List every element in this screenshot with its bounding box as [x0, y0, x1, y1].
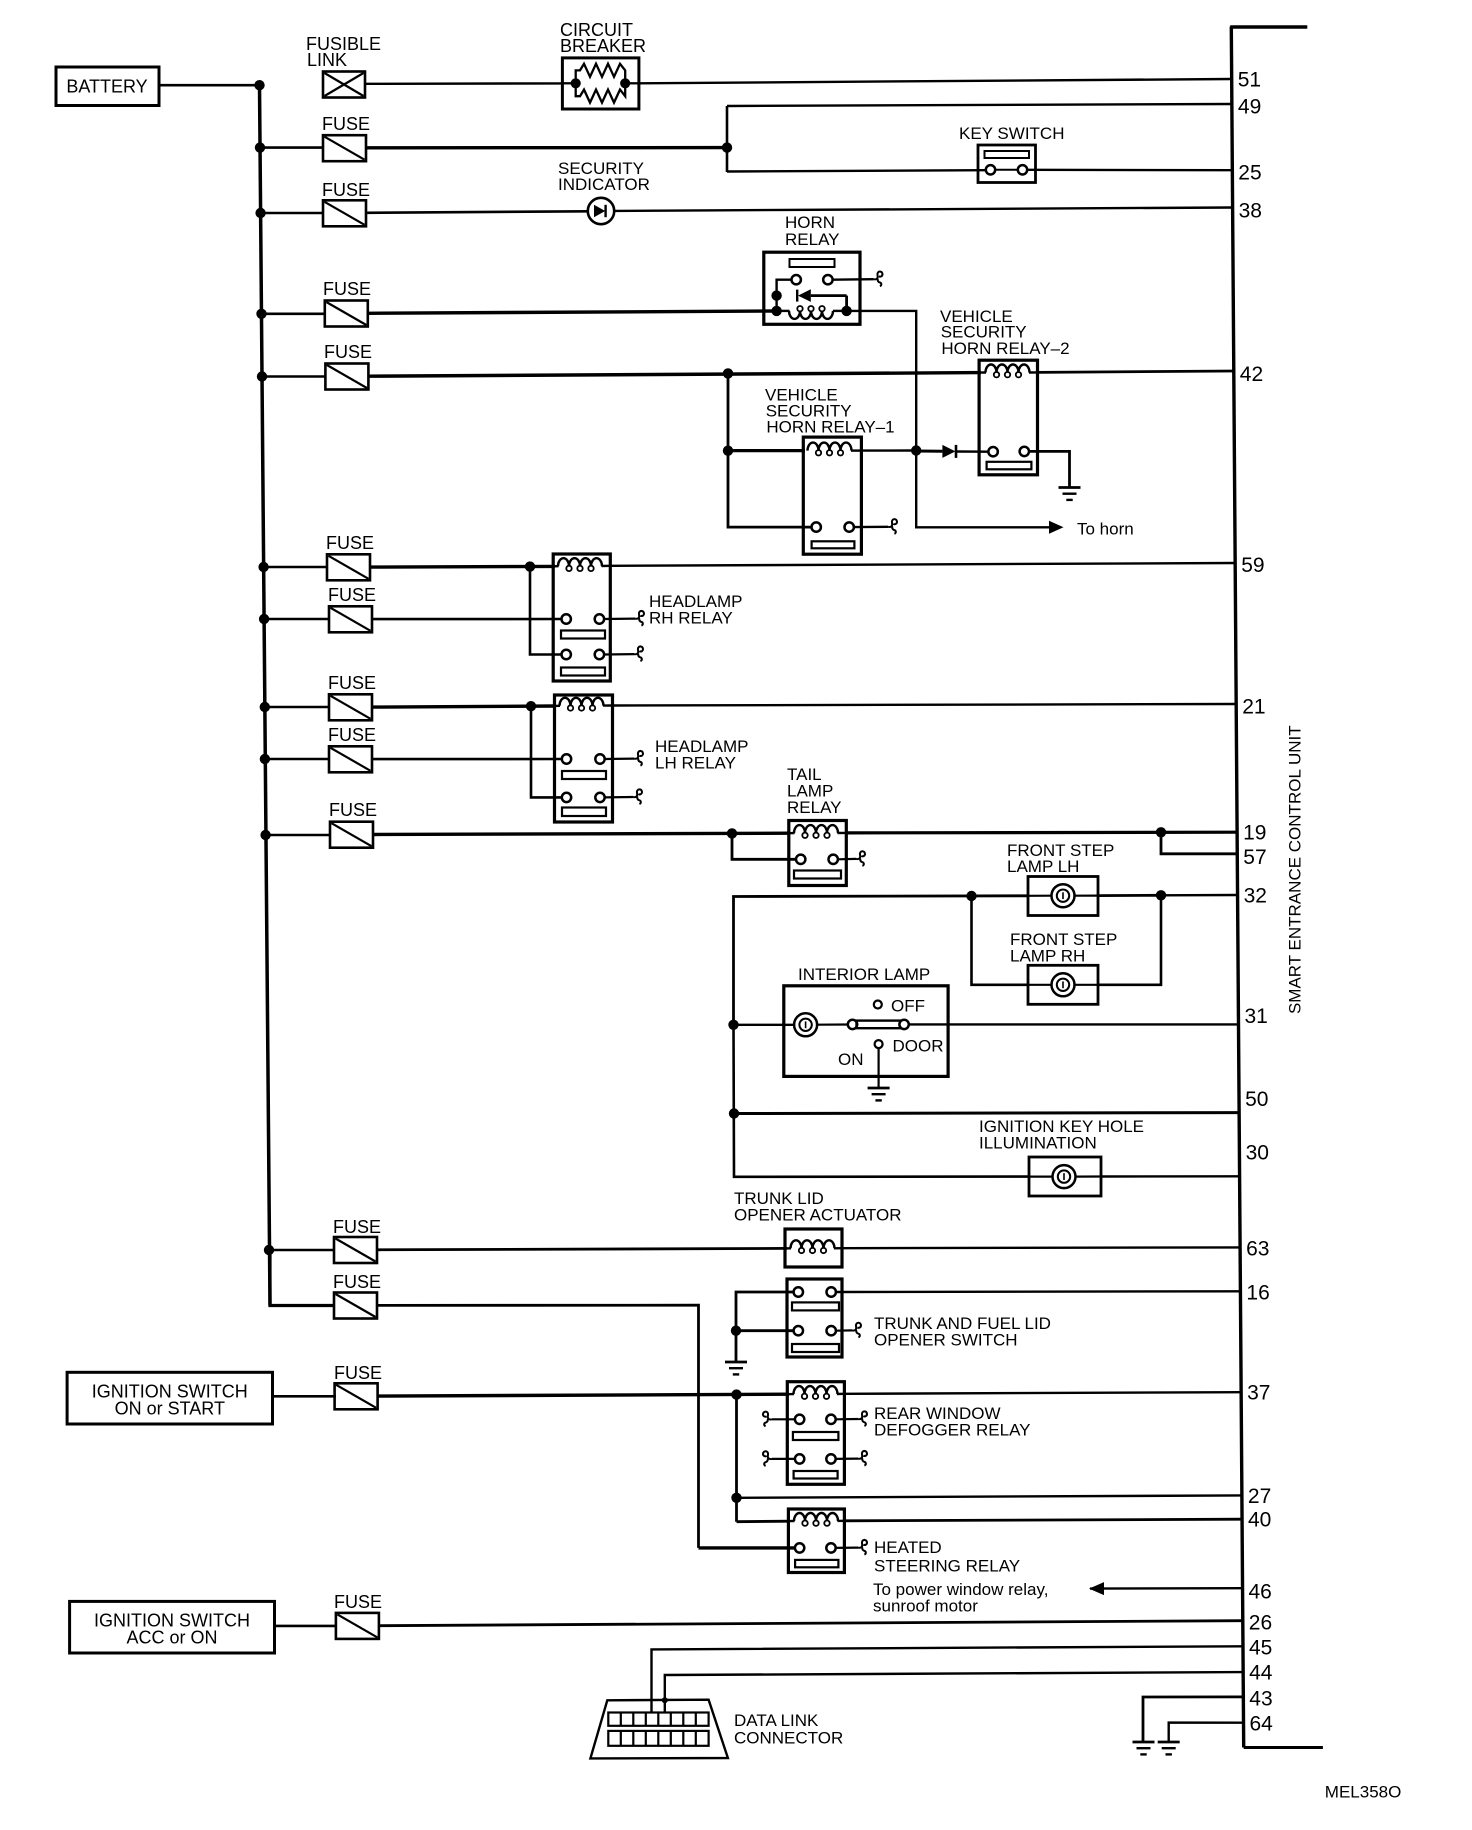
junction 50 row: [729, 1108, 739, 1118]
wire 21 coil to pin 21: [613, 704, 1237, 706]
smart entrance control unit left edge: [1231, 27, 1243, 1748]
fuse row10: [330, 822, 373, 848]
svg-text:LINK: LINK: [307, 50, 347, 70]
trunk switch contact1 right: [827, 1287, 836, 1296]
junction bus fuse row3: [255, 208, 265, 218]
wire rh relay contact2 stub: [604, 653, 634, 656]
wire heated steering stub: [836, 1546, 858, 1549]
svg-text:45: 45: [1249, 1636, 1272, 1659]
wire ign acc to fuse14: [275, 1625, 338, 1628]
wire 44 to data link connector: [665, 1672, 1243, 1713]
svg-text:27: 27: [1248, 1485, 1271, 1508]
wire lh lamp internal right: [1075, 894, 1099, 896]
wire fuse11 to actuator: [377, 1248, 787, 1249]
headlamp lh relay box: [555, 695, 613, 822]
data link connector shell: [590, 1700, 728, 1759]
data link connector row2 cells: [608, 1731, 708, 1746]
horn relay left contact wire: [777, 280, 792, 311]
smart entrance control unit top edge: [1230, 25, 1307, 28]
relay-2 coil: [979, 371, 986, 374]
svg-text:32: 32: [1244, 885, 1267, 908]
wire riser to relay-1 coil: [727, 373, 730, 450]
svg-text:FUSE: FUSE: [333, 1217, 381, 1237]
fusible link: [323, 72, 365, 98]
diode D2: [942, 445, 956, 458]
svg-text:31: 31: [1245, 1005, 1268, 1028]
junction lh coil feed: [526, 701, 536, 711]
junction 44 wire at connector edge: [662, 1697, 668, 1703]
junction relay-1 coil feed: [723, 446, 733, 456]
wire 27 to pin 27: [737, 1495, 1242, 1497]
svg-text:25: 25: [1238, 162, 1261, 185]
interior switch DOOR contact: [875, 1040, 883, 1048]
svg-text:HEATED: HEATED: [874, 1538, 942, 1557]
wire heated steering contact feed: [699, 1546, 796, 1549]
wire fuse12 to heated steering riser: [377, 1305, 699, 1548]
rh relay coil: [553, 565, 558, 567]
connector stub heated steering: [858, 1540, 867, 1555]
junction interior lamp feed: [728, 1020, 738, 1030]
wire fuse8 to lh relay coil: [372, 706, 556, 707]
heated steering contact left: [795, 1543, 804, 1552]
wire 38 indicator to pin 38: [614, 208, 1232, 211]
fuse row14: [336, 1613, 379, 1639]
circuit breaker: [562, 58, 639, 109]
wire rh lamp internal left: [1028, 984, 1052, 986]
wire defogger contact1 right stub: [836, 1418, 858, 1421]
connector stub defogger 1R: [858, 1411, 867, 1426]
wire relay-2 to ground: [1029, 451, 1070, 487]
wire to diode D2: [916, 450, 942, 453]
svg-text:HORN RELAY–2: HORN RELAY–2: [941, 339, 1069, 358]
wire 49 to pin 49: [727, 104, 1232, 106]
horn relay box: [764, 252, 860, 324]
svg-text:46: 46: [1249, 1580, 1272, 1603]
wire 26 to pin 26: [379, 1621, 1243, 1626]
wire diode to relay-2 contact: [956, 450, 989, 453]
wire relay-1 coil to diode: [861, 449, 916, 452]
wire horn relay output: [847, 311, 917, 451]
wire 30 to pin 30: [1101, 1175, 1240, 1178]
svg-text:LAMP RH: LAMP RH: [1010, 947, 1085, 966]
security indicator diode lamp: [588, 198, 614, 224]
wire keyhole feed: [734, 1025, 1030, 1177]
wire 45 to data link connector: [652, 1646, 1244, 1713]
wire relay-1 contact stub: [854, 526, 888, 529]
wire horn relay switched contact: [833, 278, 874, 281]
wire rh relay contact2 feed: [530, 567, 562, 655]
ground 43: [1133, 1742, 1155, 1754]
svg-text:ACC or ON: ACC or ON: [126, 1628, 217, 1648]
wire fuse13 to defogger relay: [378, 1394, 789, 1396]
ignition switch acc box: [70, 1601, 275, 1653]
svg-text:16: 16: [1246, 1282, 1269, 1305]
svg-text:DOOR: DOOR: [893, 1037, 944, 1056]
junction tail relay feed: [727, 828, 737, 838]
interior switch OFF contact: [874, 1001, 882, 1009]
junction bus fuse row4: [256, 309, 266, 319]
junction trunk switch ground riser: [731, 1326, 741, 1336]
wire fuse4 to horn relay: [368, 311, 777, 313]
wire lh relay contact1 stub: [605, 757, 634, 760]
wire bus to fuse2: [260, 146, 323, 149]
riser wire to 49 and key switch: [726, 106, 729, 172]
svg-text:40: 40: [1248, 1509, 1271, 1532]
lh relay bar2: [562, 808, 606, 817]
lh relay coil: [555, 705, 561, 708]
wire step lamp rh feed: [972, 896, 1029, 985]
fuse row7: [329, 606, 372, 632]
horn relay contact left: [792, 275, 801, 284]
junction bus fuse row7: [259, 614, 269, 624]
wire trunk switch row2 left: [736, 1329, 794, 1332]
ground trunk switch: [725, 1362, 747, 1374]
interior switch pivot right: [899, 1020, 908, 1029]
arrow to horn: [1049, 521, 1064, 534]
connector stub rh2: [634, 646, 643, 661]
defogger contact1 right: [826, 1415, 835, 1424]
svg-text:HORN RELAY–1: HORN RELAY–1: [766, 417, 894, 436]
wire to horn: [916, 451, 1050, 528]
wire tail relay stub: [838, 858, 856, 861]
fuse row11: [334, 1237, 377, 1263]
relay-1 contact left: [812, 522, 821, 531]
wire relay-1 lower contact feed: [728, 451, 812, 527]
junction coil right: [841, 306, 851, 316]
svg-text:42: 42: [1240, 363, 1263, 386]
wire key switch contacts: [995, 169, 1018, 171]
wire fusible link to circuit breaker: [365, 82, 562, 85]
trunk lid opener actuator box: [785, 1229, 842, 1267]
front step lamp rh bulb: [1052, 973, 1075, 996]
svg-text:63: 63: [1246, 1238, 1269, 1261]
junction rh coil feed: [525, 561, 535, 571]
wire 43 to ground: [1143, 1697, 1243, 1742]
connector stub defogger 2R: [858, 1451, 867, 1466]
trunk switch bar1: [792, 1302, 839, 1310]
ignition switch on/start box: [67, 1372, 272, 1424]
svg-text:57: 57: [1243, 846, 1266, 869]
wire 32 to pin 32: [1098, 894, 1161, 897]
tail relay contact right: [829, 855, 838, 864]
rh relay contact2 right: [595, 650, 604, 659]
svg-text:FUSE: FUSE: [328, 673, 376, 693]
actuator coil: [785, 1247, 791, 1249]
lh relay contact2 right: [595, 793, 604, 802]
svg-text:MEL358O: MEL358O: [1325, 1783, 1402, 1802]
key switch bar: [985, 151, 1030, 158]
svg-text:DATA LINK: DATA LINK: [734, 1711, 819, 1730]
wire fuse9 to lh relay contact: [372, 758, 562, 761]
svg-text:OPENER SWITCH: OPENER SWITCH: [874, 1331, 1018, 1350]
rh relay bar2: [561, 668, 605, 676]
svg-text:FUSE: FUSE: [333, 1272, 381, 1292]
svg-text:INTERIOR LAMP: INTERIOR LAMP: [798, 965, 930, 984]
defogger bar2: [794, 1471, 838, 1479]
svg-text:DEFOGGER RELAY: DEFOGGER RELAY: [874, 1421, 1031, 1440]
wire 31 to pin 31: [909, 1023, 1239, 1025]
front step lamp lh bulb: [1052, 884, 1075, 907]
wire 50 to pin 50: [734, 1111, 1239, 1115]
defogger contact2 left: [795, 1454, 804, 1463]
heated steering contact right: [826, 1543, 835, 1552]
wire 19 coil to pin 19: [846, 831, 1237, 835]
wire lh relay contact2 stub: [605, 796, 633, 799]
wire fuse7 to rh relay contact: [372, 618, 562, 621]
defogger contact2 right: [826, 1454, 835, 1463]
wire bus to fuse5: [262, 375, 325, 378]
svg-text:FUSE: FUSE: [334, 1592, 382, 1612]
wire 37 to pin 37: [844, 1392, 1241, 1394]
trunk switch bar2: [792, 1344, 839, 1352]
front step lamp lh box: [1028, 877, 1098, 916]
svg-text:RELAY: RELAY: [787, 798, 842, 817]
svg-text:BREAKER: BREAKER: [560, 36, 646, 56]
trunk switch contact2 right: [827, 1326, 836, 1335]
interior lamp bulb: [794, 1013, 817, 1036]
connector stub horn relay: [874, 272, 883, 287]
wire defogger contact2 left stub: [772, 1458, 795, 1460]
rh relay contact1 right: [595, 614, 604, 623]
relay-1 coil: [851, 449, 861, 451]
svg-text:KEY SWITCH: KEY SWITCH: [959, 124, 1064, 143]
wire trunk switch stub: [836, 1329, 852, 1331]
ground relay-2: [1059, 488, 1081, 500]
wire 51 circuit breaker to pin 51: [639, 79, 1232, 83]
wire fuse3 to security indicator: [366, 211, 588, 213]
wire keyhole internal left: [1029, 1175, 1053, 1177]
junction step lamp lh left: [966, 891, 976, 901]
wire lh lamp internal left: [1028, 895, 1052, 897]
vehicle security horn relay-1 box: [803, 437, 861, 554]
wire 40 to pin 40: [844, 1519, 1242, 1521]
defogger relay coil: [787, 1393, 794, 1395]
svg-text:LAMP LH: LAMP LH: [1007, 857, 1079, 876]
junction diode/left riser: [771, 290, 781, 300]
relay-1 contact right: [845, 522, 854, 531]
rear window defogger relay box: [787, 1382, 844, 1485]
connector stub relay-1: [888, 519, 897, 534]
fuse row9: [329, 746, 372, 772]
junction bus fuse row2: [255, 142, 265, 152]
wire tail relay contact feed: [732, 833, 797, 859]
svg-text:SMART ENTRANCE CONTROL UNIT: SMART ENTRANCE CONTROL UNIT: [1286, 725, 1305, 1014]
horn relay coil: [777, 310, 790, 312]
headlamp rh relay box: [553, 554, 610, 681]
svg-text:FUSE: FUSE: [326, 533, 374, 553]
tail relay bar: [794, 871, 841, 879]
connector stub defogger 2L: [763, 1451, 772, 1466]
svg-text:INDICATOR: INDICATOR: [558, 175, 650, 194]
junction coil left: [771, 306, 781, 316]
data link connector row1 cells: [608, 1713, 708, 1726]
interior switch pivot left: [848, 1020, 857, 1029]
junction bus fuse row9: [260, 754, 270, 764]
svg-text:ON or START: ON or START: [115, 1399, 225, 1419]
wire bus to fuse6: [264, 566, 327, 569]
svg-text:RH RELAY: RH RELAY: [649, 609, 733, 628]
relay-2 contact left: [988, 447, 997, 456]
ignition key hole illumination box: [1029, 1157, 1101, 1196]
junction fuse2/riser: [722, 142, 732, 152]
svg-text:ON: ON: [838, 1050, 864, 1069]
wire riser to heated steering coil: [737, 1520, 791, 1523]
wire 64 to ground: [1169, 1723, 1244, 1742]
svg-text:26: 26: [1249, 1612, 1272, 1635]
wire bus to fuse7: [264, 618, 329, 621]
svg-text:FUSE: FUSE: [328, 585, 376, 605]
svg-text:STEERING RELAY: STEERING RELAY: [874, 1557, 1020, 1576]
front step lamp rh box: [1028, 965, 1098, 1004]
horn relay bar: [790, 259, 835, 267]
junction 19/57: [1156, 827, 1166, 837]
horn relay contact right: [823, 275, 832, 284]
svg-text:To horn: To horn: [1077, 520, 1134, 539]
interior lamp box: [784, 986, 948, 1077]
svg-text:OFF: OFF: [891, 997, 925, 1016]
svg-text:44: 44: [1249, 1662, 1273, 1685]
wire fuse10 to tail lamp relay: [373, 833, 790, 834]
junction bus fuse row5: [257, 371, 267, 381]
vehicle security horn relay-2 box: [979, 360, 1037, 475]
junction step lamp rh right: [1156, 890, 1166, 900]
svg-text:FUSE: FUSE: [328, 725, 376, 745]
svg-text:30: 30: [1246, 1142, 1269, 1165]
wire 31 feed into box: [734, 1024, 795, 1026]
relay-2 bar: [987, 462, 1032, 470]
fuse row6: [327, 554, 370, 580]
svg-text:FUSE: FUSE: [322, 180, 370, 200]
svg-text:ILLUMINATION: ILLUMINATION: [979, 1134, 1097, 1153]
wire rh relay contact1 stub: [604, 617, 635, 620]
svg-text:64: 64: [1250, 1713, 1274, 1736]
wire 42 fuse5 to relay-2 coil: [368, 373, 981, 377]
junction 27: [731, 1493, 741, 1503]
key switch box: [978, 145, 1036, 183]
wire bulb to switch: [817, 1023, 848, 1025]
wire door contact to ground: [877, 1048, 879, 1087]
svg-text:FUSE: FUSE: [329, 800, 377, 820]
svg-text:RELAY: RELAY: [785, 230, 840, 249]
relay-1 bar: [812, 541, 855, 548]
battery box: [56, 67, 159, 106]
wire defogger contact2 right stub: [836, 1457, 858, 1460]
wire step lamp rh return: [1098, 895, 1161, 985]
wire 57 drop: [1161, 832, 1237, 854]
keyhole bulb: [1053, 1165, 1076, 1188]
ground interior lamp: [868, 1088, 890, 1100]
fuse row3: [323, 200, 366, 226]
tail lamp relay box: [789, 821, 847, 886]
svg-text:FUSE: FUSE: [322, 114, 370, 134]
arrow to power window: [1089, 1582, 1104, 1595]
junction bus fuse row8: [260, 702, 270, 712]
tail lamp relay coil: [789, 832, 795, 835]
wire bus to fuse9: [265, 758, 329, 761]
wire 25 key switch to pin 25: [1027, 169, 1232, 172]
wire bus to fuse11: [269, 1249, 334, 1252]
interior switch blade: [857, 1021, 901, 1029]
wire rh lamp internal right: [1075, 984, 1099, 986]
svg-text:sunroof motor: sunroof motor: [873, 1597, 978, 1616]
junction defogger feed: [731, 1389, 741, 1399]
tail relay contact left: [796, 855, 805, 864]
lh relay bar1: [562, 771, 606, 779]
wire keyhole internal right: [1076, 1175, 1102, 1177]
svg-text:CONNECTOR: CONNECTOR: [734, 1729, 843, 1748]
rh relay bar1: [561, 631, 605, 639]
horn relay diode: [797, 289, 846, 311]
wire 32 row: [734, 896, 1029, 1025]
smart entrance control unit bottom edge: [1244, 1746, 1323, 1749]
wire fuse6 to rh relay coil: [370, 565, 555, 569]
wire 42 relay-2 to pin 42: [1038, 371, 1234, 372]
fuse row5: [325, 364, 368, 390]
wire bus to fuse3: [261, 212, 323, 215]
wire defogger riser: [735, 1395, 738, 1522]
wire fuse2 to riser: [366, 146, 728, 150]
connector stub rh1: [635, 611, 644, 626]
svg-text:38: 38: [1239, 200, 1262, 223]
rh relay contact2 left: [562, 650, 571, 659]
svg-text:BATTERY: BATTERY: [66, 77, 147, 97]
heated steering coil: [788, 1520, 794, 1522]
wire 16 to pin 16: [836, 1290, 1241, 1293]
fuse row4: [325, 301, 368, 327]
svg-text:19: 19: [1243, 822, 1266, 845]
svg-text:37: 37: [1247, 1382, 1270, 1405]
wire 46 power window: [1090, 1587, 1243, 1590]
svg-text:FUSE: FUSE: [334, 1363, 382, 1383]
junction bus fuse row6: [258, 562, 268, 572]
svg-text:21: 21: [1242, 696, 1265, 719]
fuse row2: [323, 135, 366, 161]
svg-text:50: 50: [1245, 1088, 1268, 1111]
trunk switch contact1 left: [794, 1287, 803, 1296]
connector stub lh1: [634, 751, 643, 766]
svg-text:51: 51: [1238, 69, 1261, 92]
wire lh relay contact2 feed: [531, 706, 562, 797]
svg-text:FUSE: FUSE: [323, 279, 371, 299]
wire battery to bus: [159, 84, 261, 87]
defogger contact1 left: [795, 1415, 804, 1424]
fuse row12: [334, 1293, 377, 1319]
svg-text:LH RELAY: LH RELAY: [655, 754, 736, 773]
svg-text:FUSE: FUSE: [324, 342, 372, 362]
key switch contact left: [986, 165, 995, 174]
trunk and fuel lid opener switch box: [787, 1279, 842, 1357]
key switch contact right: [1018, 165, 1027, 174]
svg-text:49: 49: [1238, 96, 1261, 119]
wire bus to fuse10: [266, 834, 330, 837]
wire 59 coil to pin 59: [610, 563, 1235, 566]
wire bus to fuse8: [265, 706, 329, 709]
fuse row8: [329, 694, 372, 720]
rh relay contact1 left: [562, 614, 571, 623]
wire bus to fuse4: [262, 312, 325, 315]
connector stub defogger 1L: [763, 1412, 772, 1427]
wire to relay-1 coil: [728, 449, 805, 452]
ground 64: [1158, 1742, 1180, 1754]
heated steering relay box: [788, 1509, 844, 1573]
lh relay contact1 left: [562, 754, 571, 763]
connector stub trunk switch: [852, 1323, 861, 1338]
svg-text:59: 59: [1241, 554, 1264, 577]
wire 63 to pin 63: [842, 1246, 1240, 1249]
battery bus vertical wire: [260, 85, 271, 1305]
lh relay contact2 left: [562, 793, 571, 802]
relay-2 contact right: [1020, 447, 1029, 456]
